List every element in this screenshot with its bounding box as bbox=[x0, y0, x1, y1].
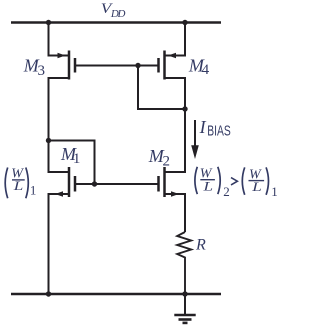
svg-text:1: 1 bbox=[271, 184, 278, 199]
svg-text:1: 1 bbox=[73, 151, 81, 167]
svg-text:L: L bbox=[251, 179, 262, 194]
svg-text:2: 2 bbox=[163, 153, 171, 169]
svg-text:2: 2 bbox=[223, 184, 230, 199]
svg-text:4: 4 bbox=[202, 62, 210, 78]
svg-text:1: 1 bbox=[30, 182, 37, 197]
svg-text:DD: DD bbox=[110, 8, 126, 20]
svg-text:I: I bbox=[199, 117, 207, 137]
svg-text:3: 3 bbox=[38, 63, 46, 79]
svg-text:R: R bbox=[195, 237, 206, 254]
svg-text:L: L bbox=[202, 178, 213, 193]
svg-text:L: L bbox=[12, 178, 23, 193]
svg-text:BIAS: BIAS bbox=[207, 123, 231, 140]
